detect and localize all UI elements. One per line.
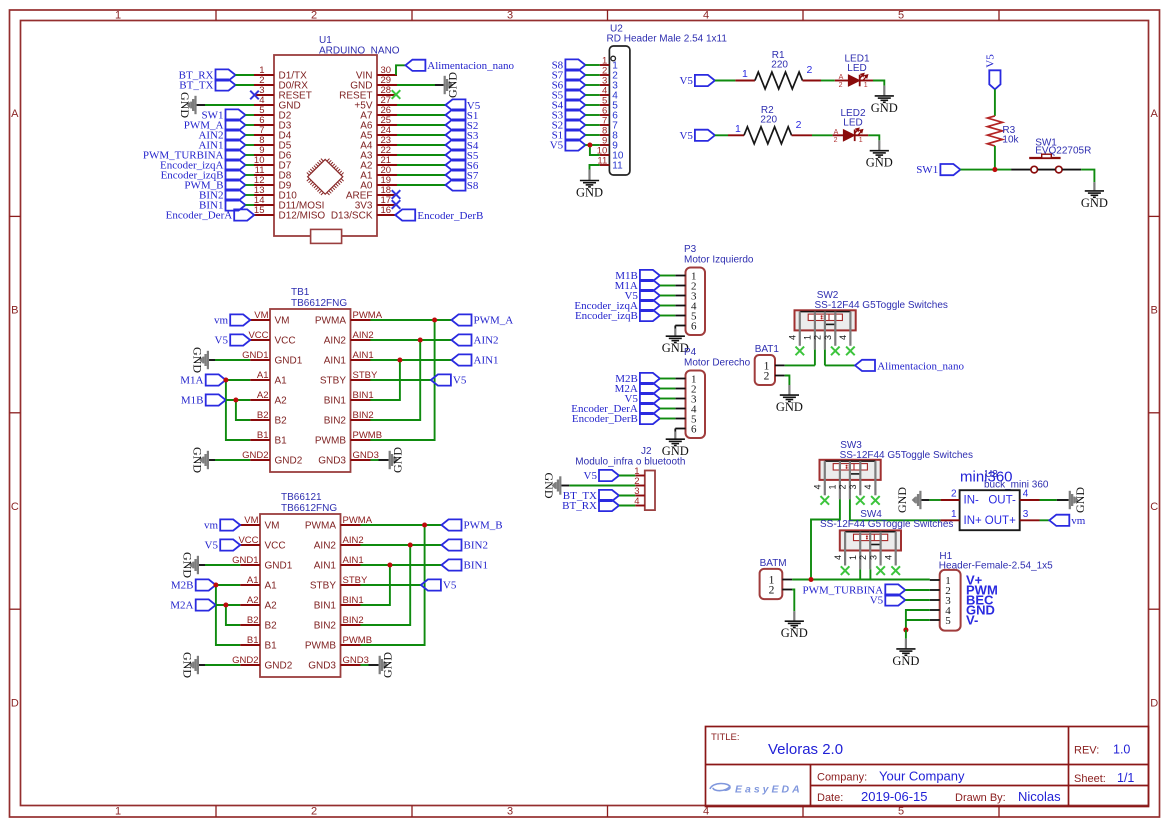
ground under SW1 bbox=[1085, 191, 1104, 197]
J2 pin 1 bbox=[634, 466, 645, 477]
net flag V5 (U2 pin 9) bbox=[550, 139, 586, 151]
IC TB1 body box bbox=[270, 309, 351, 472]
net flag V5 (TB2 STBY) bbox=[421, 579, 457, 591]
net flag Encoder_izqA (P3 pin 4) bbox=[574, 300, 660, 312]
svg-text:220: 220 bbox=[771, 60, 788, 71]
resistor R1 bbox=[755, 50, 803, 89]
svg-text:3: 3 bbox=[1023, 509, 1029, 520]
no-connect X on U1 pin 3 bbox=[250, 91, 259, 100]
svg-text:5: 5 bbox=[898, 10, 904, 22]
wire Encoder_DerA to P4 bbox=[660, 408, 675, 410]
svg-text:GND: GND bbox=[381, 652, 395, 678]
TB2 left pin VCC bbox=[238, 535, 285, 552]
U1 pin 29 (GND) bbox=[350, 75, 397, 92]
connector P3 body bbox=[686, 268, 706, 336]
wire ground to J2 pin2 bbox=[561, 485, 569, 487]
net flag S6 (U2 pin 3) bbox=[552, 79, 586, 91]
svg-text:AIN2: AIN2 bbox=[324, 336, 347, 347]
ground under P4 bbox=[666, 439, 685, 445]
svg-text:P4: P4 bbox=[684, 347, 697, 358]
TB1 right pin AIN2 bbox=[324, 330, 374, 347]
wire AIN2 node down to BIN2 bbox=[371, 340, 421, 420]
U1 pin 10 (D7) bbox=[254, 155, 292, 172]
svg-text:GND: GND bbox=[781, 626, 808, 640]
net flag BIN1 (TB2) bbox=[442, 559, 488, 571]
no-connect X on U1 pin 17 bbox=[392, 200, 401, 209]
svg-text:M2B: M2B bbox=[171, 580, 194, 592]
TB2 right pin PWMB bbox=[305, 635, 372, 652]
svg-text:3: 3 bbox=[507, 10, 513, 22]
ground flag at U1 pin 4 bbox=[178, 92, 197, 118]
U1 pin 18 (AREF) bbox=[346, 185, 397, 202]
svg-text:SW1: SW1 bbox=[916, 164, 938, 176]
P3 pin 3 bbox=[675, 290, 697, 302]
wire Encoder_DerB to P4 bbox=[660, 418, 675, 420]
svg-text:VM: VM bbox=[244, 515, 258, 526]
TB2 left pin B1 bbox=[240, 635, 277, 652]
svg-text:S8: S8 bbox=[467, 180, 479, 192]
wire BATM pin2 to ground bbox=[792, 590, 794, 612]
wire V5 to R1 bbox=[715, 80, 736, 82]
P3 pin 5 bbox=[675, 310, 697, 322]
ground flag at U1 pin 29 bbox=[444, 72, 460, 98]
svg-text:B1: B1 bbox=[247, 635, 259, 646]
net flag M2B (TB2 A1) bbox=[171, 579, 216, 591]
U1 pin 27 (+5V) bbox=[354, 95, 397, 112]
wire PWM_A to U1 bbox=[246, 124, 255, 126]
wire S8 to U2 bbox=[585, 64, 599, 66]
svg-text:2: 2 bbox=[839, 82, 843, 89]
svg-text:4: 4 bbox=[1023, 489, 1029, 500]
svg-text:P3: P3 bbox=[684, 244, 697, 255]
svg-text:GND2: GND2 bbox=[265, 661, 293, 672]
ground flag at U3 IN- bbox=[895, 487, 922, 513]
svg-text:GND: GND bbox=[178, 92, 192, 118]
net flag S1 (U2 pin 8) bbox=[552, 129, 586, 141]
net flag Encoder_DerB (U1 pin16) bbox=[395, 209, 483, 221]
svg-text:V5: V5 bbox=[679, 130, 693, 142]
wire PWM_TURBINA to H1 pin2 bbox=[905, 589, 930, 591]
svg-text:Nicolas: Nicolas bbox=[1018, 789, 1061, 804]
U1 pin 23 (A4) bbox=[360, 135, 397, 152]
net flag SW1 (U1 left) bbox=[202, 109, 246, 121]
net flag V5 (TB1 STBY) bbox=[431, 374, 467, 386]
svg-text:VCC: VCC bbox=[265, 541, 286, 552]
wire M2B to TB2 A1 bbox=[216, 584, 241, 586]
resistor R3 bbox=[987, 116, 1019, 146]
net flag M2A (P4 pin 2) bbox=[615, 383, 660, 395]
junction BATM/SW3 node bbox=[808, 577, 813, 582]
U1 pin 28 (RESET) bbox=[339, 85, 397, 102]
net flag S2 (U1 right) bbox=[446, 119, 479, 131]
H1 pin 1 bbox=[930, 575, 951, 587]
wire U3 OUT+ to vm flag bbox=[1040, 519, 1050, 521]
wire U1 to S1 flag bbox=[397, 114, 446, 116]
svg-text:2: 2 bbox=[311, 10, 317, 22]
svg-text:220: 220 bbox=[760, 114, 777, 125]
wire U1 to S5 flag bbox=[397, 154, 446, 156]
net flag V5 (TB2 VCC) bbox=[205, 539, 241, 551]
svg-text:C: C bbox=[1150, 501, 1158, 513]
net flag BT_TX (J2 pin3) bbox=[563, 490, 619, 502]
U2 pin 4 bbox=[600, 85, 619, 101]
svg-text:A1: A1 bbox=[257, 370, 269, 381]
net flag S7 (U1 right) bbox=[446, 169, 479, 182]
wire S4 to U2 bbox=[585, 104, 599, 106]
wire U1 to S4 flag bbox=[397, 144, 446, 146]
wire ground to U3 IN- bbox=[922, 499, 930, 501]
wire S3 to U2 bbox=[585, 114, 599, 116]
svg-text:TITLE:: TITLE: bbox=[711, 732, 740, 743]
net flag S4 (U2 pin 5) bbox=[552, 99, 586, 111]
wire U1 to V5 flag bbox=[397, 104, 446, 106]
net flag S4 (U1 right) bbox=[446, 139, 479, 152]
wire TB2 STBY to V5 flag bbox=[361, 584, 421, 586]
svg-text:10k: 10k bbox=[1002, 135, 1019, 146]
TB2 left pin GND2 bbox=[232, 655, 293, 672]
wire M1B to TB1 A2 bbox=[226, 399, 251, 401]
U1 pin 30 (VIN) bbox=[356, 65, 397, 82]
svg-text:AIN1: AIN1 bbox=[324, 356, 347, 367]
net flag M1A (P3 pin 2) bbox=[615, 280, 660, 292]
svg-text:Alimentacion_nano: Alimentacion_nano bbox=[427, 60, 514, 72]
U1 pin 13 (D10) bbox=[254, 185, 297, 202]
resistor R2 bbox=[744, 105, 792, 144]
net flag Encoder_izqB (P3 pin 5) bbox=[575, 310, 660, 322]
wire S1 to U2 bbox=[585, 134, 599, 136]
wire U2 pin11 to ground bbox=[590, 165, 600, 170]
wire SW1 to U1 bbox=[246, 114, 255, 116]
svg-text:GND1: GND1 bbox=[275, 356, 303, 367]
ground under BAT1 bbox=[780, 395, 799, 401]
svg-text:GND: GND bbox=[446, 72, 460, 98]
wire A2 node down to B2 bbox=[236, 400, 250, 420]
TB1 right pin STBY bbox=[320, 370, 378, 387]
no-connect X on U1 pin 28 bbox=[392, 90, 401, 99]
svg-text:OUT-: OUT- bbox=[988, 495, 1016, 507]
U1 pin 4 (GND) bbox=[254, 95, 301, 112]
ground under BATM bbox=[785, 621, 804, 627]
TB1 right pin PWMB bbox=[315, 430, 382, 447]
svg-text:A2: A2 bbox=[257, 390, 269, 401]
svg-text:U3: U3 bbox=[985, 469, 998, 480]
svg-text:GND: GND bbox=[892, 654, 919, 668]
U1 pin 25 (A6) bbox=[360, 115, 397, 132]
svg-text:3: 3 bbox=[848, 484, 858, 489]
net flag PWM_A (TB1) bbox=[452, 314, 514, 326]
wire V5 to H1 pin3 bbox=[905, 599, 930, 601]
svg-text:REV:: REV: bbox=[1074, 745, 1099, 757]
junction R3/SW1 node bbox=[992, 167, 997, 172]
svg-text:A2: A2 bbox=[265, 601, 278, 612]
net flag BIN2 (U1 left) bbox=[199, 189, 245, 201]
svg-text:4: 4 bbox=[813, 484, 823, 489]
svg-text:VM: VM bbox=[275, 316, 290, 327]
P4 pin 2 bbox=[675, 383, 696, 395]
svg-text:BT_RX: BT_RX bbox=[562, 500, 597, 512]
TB1 left pin A2 bbox=[250, 390, 287, 407]
wire ground node down bbox=[905, 630, 907, 639]
P4 pin 3 bbox=[675, 393, 697, 405]
svg-text:3: 3 bbox=[823, 335, 833, 340]
U3 pin 3 stub (OUT+) bbox=[1020, 509, 1040, 520]
svg-text:GND1: GND1 bbox=[265, 561, 293, 572]
U1 pin 22 (A3) bbox=[360, 145, 397, 162]
no-connect X on U1 pin 18 bbox=[392, 190, 401, 199]
svg-text:A1: A1 bbox=[265, 581, 278, 592]
TB1 left pin GND2 bbox=[242, 450, 303, 467]
svg-text:U1: U1 bbox=[319, 35, 332, 46]
svg-text:V5: V5 bbox=[679, 75, 693, 87]
U1 pin 8 (D5) bbox=[254, 135, 292, 152]
svg-text:B2: B2 bbox=[257, 410, 269, 421]
svg-text:2: 2 bbox=[796, 119, 802, 131]
svg-text:V5: V5 bbox=[443, 580, 457, 592]
TB2 right pin AIN1 bbox=[314, 555, 364, 572]
U1 pin 5 (D2) bbox=[254, 105, 292, 122]
wire M2A to TB2 A2 bbox=[216, 604, 241, 606]
svg-text:STBY: STBY bbox=[320, 376, 346, 387]
junction TB1 A1 bbox=[223, 377, 228, 382]
net flag S3 (U2 pin 6) bbox=[552, 109, 586, 121]
svg-text:Alimentacion_nano: Alimentacion_nano bbox=[877, 360, 964, 372]
svg-text:6: 6 bbox=[691, 320, 697, 332]
U1 pin 11 (D8) bbox=[254, 165, 292, 182]
svg-text:1: 1 bbox=[828, 484, 838, 489]
net flag V5 (J2 pin1) bbox=[584, 470, 619, 482]
wire BIN1 to U1 bbox=[246, 204, 255, 206]
wire LED2 to ground bbox=[868, 135, 879, 140]
U1 pin 6 (D3) bbox=[254, 115, 292, 132]
svg-text:Encoder_DerB: Encoder_DerB bbox=[417, 210, 483, 222]
wire S2 to U2 bbox=[585, 124, 599, 126]
BAT1 pin 2 bbox=[764, 370, 785, 382]
wire R1 to LED1 bbox=[821, 80, 835, 82]
svg-text:B1: B1 bbox=[275, 436, 288, 447]
net flag V5 (H1 pin3) bbox=[870, 594, 906, 606]
wire S7 to U2 bbox=[585, 74, 599, 76]
svg-text:4: 4 bbox=[838, 335, 848, 340]
U2 pin 5 bbox=[600, 95, 619, 111]
connector U2 body bbox=[609, 46, 630, 175]
U1 pin 19 (A0) bbox=[360, 175, 397, 192]
TB2 right pin BIN1 bbox=[314, 595, 364, 612]
svg-text:11: 11 bbox=[612, 161, 623, 172]
svg-text:V5: V5 bbox=[205, 540, 219, 552]
svg-text:buck_mini 360: buck_mini 360 bbox=[984, 480, 1049, 491]
svg-text:1: 1 bbox=[742, 68, 748, 80]
svg-text:B1: B1 bbox=[257, 430, 269, 441]
net flag M2A (TB2 A2) bbox=[170, 599, 215, 611]
IC TB2 body box bbox=[260, 514, 341, 677]
wire SW4 pin2 down bbox=[869, 569, 871, 579]
wire U1 pin4 to ground bbox=[197, 104, 205, 106]
title block REV bbox=[1074, 743, 1130, 757]
svg-text:2: 2 bbox=[311, 806, 317, 818]
BATM pin 2 bbox=[769, 584, 792, 596]
wire TB2 GND2 bbox=[199, 664, 205, 666]
svg-text:1: 1 bbox=[951, 509, 957, 520]
ground flag at TB1 GND3 bbox=[389, 447, 405, 473]
net flag S2 (U2 pin 7) bbox=[552, 119, 586, 131]
svg-text:BIN2: BIN2 bbox=[464, 540, 488, 552]
net flag S5 (U2 pin 4) bbox=[552, 89, 586, 101]
wire U1 to S6 flag bbox=[397, 164, 446, 166]
P4 pin 6 bbox=[675, 423, 697, 435]
R2 pin 2 stub bbox=[792, 134, 812, 136]
svg-text:vm: vm bbox=[1071, 515, 1086, 527]
U1 pin 16 (D13/SCK) bbox=[331, 205, 397, 222]
wire LED1 to ground bbox=[873, 81, 884, 86]
U1 pin 2 (D0/RX) bbox=[254, 75, 308, 92]
net flag AIN1 (U1 left) bbox=[198, 139, 245, 151]
svg-text:EasyEDA: EasyEDA bbox=[735, 784, 803, 796]
TB2 left pin GND1 bbox=[232, 555, 293, 572]
junction TB2 A2 bbox=[223, 602, 228, 607]
wire TB1 GND1 bbox=[209, 359, 215, 361]
U1 pin 17 (3V3) bbox=[355, 195, 397, 212]
frame row letters bbox=[11, 108, 1159, 710]
ground flag at J2 pin2 bbox=[542, 473, 561, 499]
ground flag at TB2 GND2 bbox=[181, 652, 200, 678]
U2 pin 9 bbox=[600, 135, 619, 151]
wire SW1 to ground bbox=[1081, 170, 1094, 183]
svg-text:Date:: Date: bbox=[817, 792, 843, 804]
net flag M1B (TB1 A2) bbox=[181, 394, 226, 406]
LED2 cathode stub bbox=[855, 134, 869, 136]
op-amp U1 body box bbox=[274, 55, 377, 236]
svg-text:TB6612FNG: TB6612FNG bbox=[291, 298, 347, 309]
P3 pin 2 bbox=[675, 280, 696, 292]
svg-text:2: 2 bbox=[858, 555, 868, 560]
J2 pin 4 bbox=[634, 496, 645, 507]
wire V5 to P3 bbox=[660, 295, 675, 297]
LED2 labels bbox=[840, 108, 865, 129]
net flag SW1 bbox=[916, 164, 960, 176]
svg-text:AIN1: AIN1 bbox=[343, 555, 364, 566]
BAT1 pin 1 bbox=[764, 360, 785, 372]
wire TB1 AIN1 to AIN1 flag bbox=[371, 359, 452, 361]
title block Sheet bbox=[1074, 771, 1134, 785]
net flag M2B (P4 pin 1) bbox=[615, 373, 660, 385]
U3 pin names bbox=[964, 495, 1017, 527]
H1 pin 2 bbox=[930, 585, 951, 597]
BATM pin 1 bbox=[769, 574, 792, 586]
wire H1 pin4 to ground node bbox=[906, 610, 930, 630]
svg-text:GND: GND bbox=[191, 347, 205, 373]
U1 chip diamond icon bbox=[308, 159, 343, 194]
svg-text:GND3: GND3 bbox=[308, 661, 336, 672]
net flag M1A (TB1 A1) bbox=[180, 374, 225, 386]
svg-text:PWM_A: PWM_A bbox=[474, 315, 514, 327]
net flag S8 (U1 right) bbox=[446, 179, 479, 192]
wire TB2 GND3 to ground bbox=[361, 664, 369, 666]
ground under H1 bbox=[896, 649, 915, 655]
wire M1B to P3 bbox=[660, 275, 675, 277]
svg-text:GND: GND bbox=[1081, 196, 1108, 210]
J2 pin 2 bbox=[634, 476, 645, 487]
P3 pin 6 bbox=[675, 320, 697, 332]
wire M2A to P4 bbox=[660, 388, 675, 390]
svg-text:A: A bbox=[839, 74, 844, 81]
svg-text:Sheet:: Sheet: bbox=[1074, 773, 1106, 785]
P4 pin 4 bbox=[675, 403, 697, 415]
svg-text:4: 4 bbox=[703, 10, 709, 22]
svg-text:BIN2: BIN2 bbox=[343, 615, 364, 626]
svg-text:C: C bbox=[11, 501, 19, 513]
svg-text:B2: B2 bbox=[265, 621, 278, 632]
svg-text:Company:: Company: bbox=[817, 772, 867, 784]
svg-text:Encoder_DerA: Encoder_DerA bbox=[166, 210, 233, 222]
net flag vm (TB2 VM) bbox=[204, 519, 240, 531]
net flag V5 (U1 right) bbox=[446, 99, 481, 112]
wire U1 pin30 to Alimentacion_nano flag bbox=[396, 65, 405, 75]
svg-text:1: 1 bbox=[864, 82, 868, 89]
wire R2 to LED2 bbox=[812, 134, 833, 136]
ground flag at TB1 GND2 bbox=[191, 447, 210, 473]
net flag S8 (U2 pin 1) bbox=[552, 59, 586, 71]
svg-text:GND: GND bbox=[542, 473, 556, 499]
wire SW2 pin2 to Alimentacion_nano bbox=[825, 364, 855, 366]
svg-text:GND: GND bbox=[871, 101, 898, 115]
junction TB1 PWMA bbox=[432, 317, 437, 322]
svg-text:LED: LED bbox=[843, 118, 862, 129]
svg-text:2019-06-15: 2019-06-15 bbox=[861, 789, 928, 804]
svg-text:4: 4 bbox=[863, 484, 873, 489]
svg-text:1: 1 bbox=[735, 123, 741, 135]
TB2 right pin PWMA bbox=[305, 515, 373, 532]
svg-text:1: 1 bbox=[115, 806, 121, 818]
TB2 right pin GND3 bbox=[308, 655, 369, 672]
ground under U2 bbox=[580, 181, 599, 187]
wire U3 OUT- to ground bbox=[1040, 499, 1057, 501]
connector H1 body bbox=[940, 570, 961, 631]
svg-text:V-: V- bbox=[966, 613, 978, 628]
svg-text:4: 4 bbox=[788, 335, 798, 340]
U1 pin 21 (A2) bbox=[360, 155, 397, 172]
wire TB2 AIN2 node down to BIN2 bbox=[361, 545, 411, 625]
wire TB2 AIN1 to BIN1 flag bbox=[361, 564, 442, 566]
junction at U2 pin9 bbox=[587, 142, 592, 147]
junction TB2 PWMA bbox=[422, 522, 427, 527]
wire SW2 pin2 down bbox=[824, 350, 826, 366]
svg-text:4: 4 bbox=[833, 555, 843, 560]
svg-text:V5: V5 bbox=[453, 375, 467, 387]
svg-text:B: B bbox=[1151, 305, 1158, 317]
wire V5 to J2 pin1 bbox=[619, 475, 635, 477]
wire Encoder_izqB to P3 bbox=[660, 315, 675, 317]
junction TB1 AIN1 bbox=[397, 357, 402, 362]
U3 pin 2 stub (IN-) bbox=[941, 489, 960, 500]
net flag Alimentacion_nano (U1 pin30) bbox=[405, 60, 514, 72]
wire S6 to U2 bbox=[585, 84, 599, 86]
svg-text:Veloras 2.0: Veloras 2.0 bbox=[768, 741, 843, 758]
switch SW1 labels bbox=[1035, 137, 1091, 156]
wire PWM_B to U1 bbox=[246, 184, 255, 186]
U1 pin 1 (D1/TX) bbox=[254, 65, 307, 82]
svg-text:VCC: VCC bbox=[248, 330, 268, 341]
svg-text:VM: VM bbox=[254, 310, 268, 321]
net flag Alimentacion_nano (SW2) bbox=[855, 360, 964, 373]
svg-text:2: 2 bbox=[764, 370, 770, 382]
wire M2B to P4 bbox=[660, 378, 675, 380]
net flag PWM_B (TB2) bbox=[442, 519, 503, 531]
net flag S7 (U2 pin 2) bbox=[552, 69, 586, 81]
connector J2 body bbox=[645, 471, 655, 511]
svg-text:Your Company: Your Company bbox=[879, 769, 965, 784]
net flag BIN2 (TB2) bbox=[442, 539, 488, 551]
U2 pin 10 bbox=[597, 145, 624, 161]
